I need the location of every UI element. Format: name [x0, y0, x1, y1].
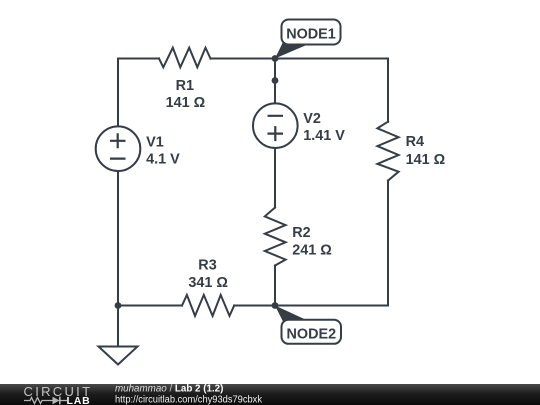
wire bottom-right segment: [234, 305, 388, 307]
resistor R2: [265, 208, 286, 266]
wire right lower: [387, 181, 389, 306]
junction dot v2 wire: [272, 77, 279, 84]
voltage source V2: [253, 103, 298, 148]
junction dot node1: [272, 55, 279, 62]
svg-text:NODE2: NODE2: [287, 326, 337, 342]
svg-text:1.41 V: 1.41 V: [303, 128, 345, 144]
wire bottom-left segment: [118, 305, 182, 307]
svg-text:R4: R4: [406, 134, 424, 150]
svg-text:341 Ω: 341 Ω: [188, 275, 228, 291]
svg-text:241 Ω: 241 Ω: [292, 242, 332, 258]
ground: [99, 347, 138, 365]
wire left lower: [117, 171, 119, 306]
wire middle upper: [274, 59, 276, 104]
node NODE1: [275, 20, 341, 59]
svg-text:R1: R1: [176, 78, 194, 94]
footer bar: [0, 384, 540, 405]
resistor R3: [182, 295, 234, 316]
svg-text:V2: V2: [303, 111, 321, 127]
svg-text:R3: R3: [198, 258, 216, 274]
wire ground stub: [117, 306, 119, 347]
wire left upper: [117, 59, 119, 127]
svg-text:LAB: LAB: [67, 395, 91, 405]
svg-text:V1: V1: [146, 135, 164, 151]
junction dot node2: [272, 302, 279, 309]
svg-text:R2: R2: [292, 225, 310, 241]
voltage source V1: [96, 126, 141, 171]
resistor R4: [377, 122, 398, 181]
resistor R1: [159, 48, 211, 68]
label R3 value: [188, 258, 228, 291]
label R2 value: [292, 225, 332, 258]
wire right upper: [387, 59, 389, 122]
label R1 value: [166, 78, 206, 111]
wire top-right segment: [211, 58, 389, 60]
svg-text:http://circuitlab.com/chy93ds7: http://circuitlab.com/chy93ds79cbxk: [115, 394, 262, 405]
svg-text:NODE1: NODE1: [286, 26, 336, 42]
wire top-left segment: [118, 58, 159, 60]
junction dot bottom-left: [115, 302, 122, 309]
label V1 value: [146, 135, 180, 168]
label R4 value: [406, 134, 446, 168]
svg-text:4.1 V: 4.1 V: [146, 151, 180, 167]
wire middle mid: [274, 148, 276, 208]
label V2 value: [303, 111, 345, 144]
footer logo glyph resistor-diode: [24, 398, 67, 404]
svg-text:muhammao / Lab 2 (1.2): muhammao / Lab 2 (1.2): [115, 383, 223, 394]
svg-text:141 Ω: 141 Ω: [406, 152, 446, 168]
wire middle lower: [274, 266, 276, 306]
svg-text:141 Ω: 141 Ω: [166, 95, 206, 111]
node NODE2: [275, 306, 341, 344]
